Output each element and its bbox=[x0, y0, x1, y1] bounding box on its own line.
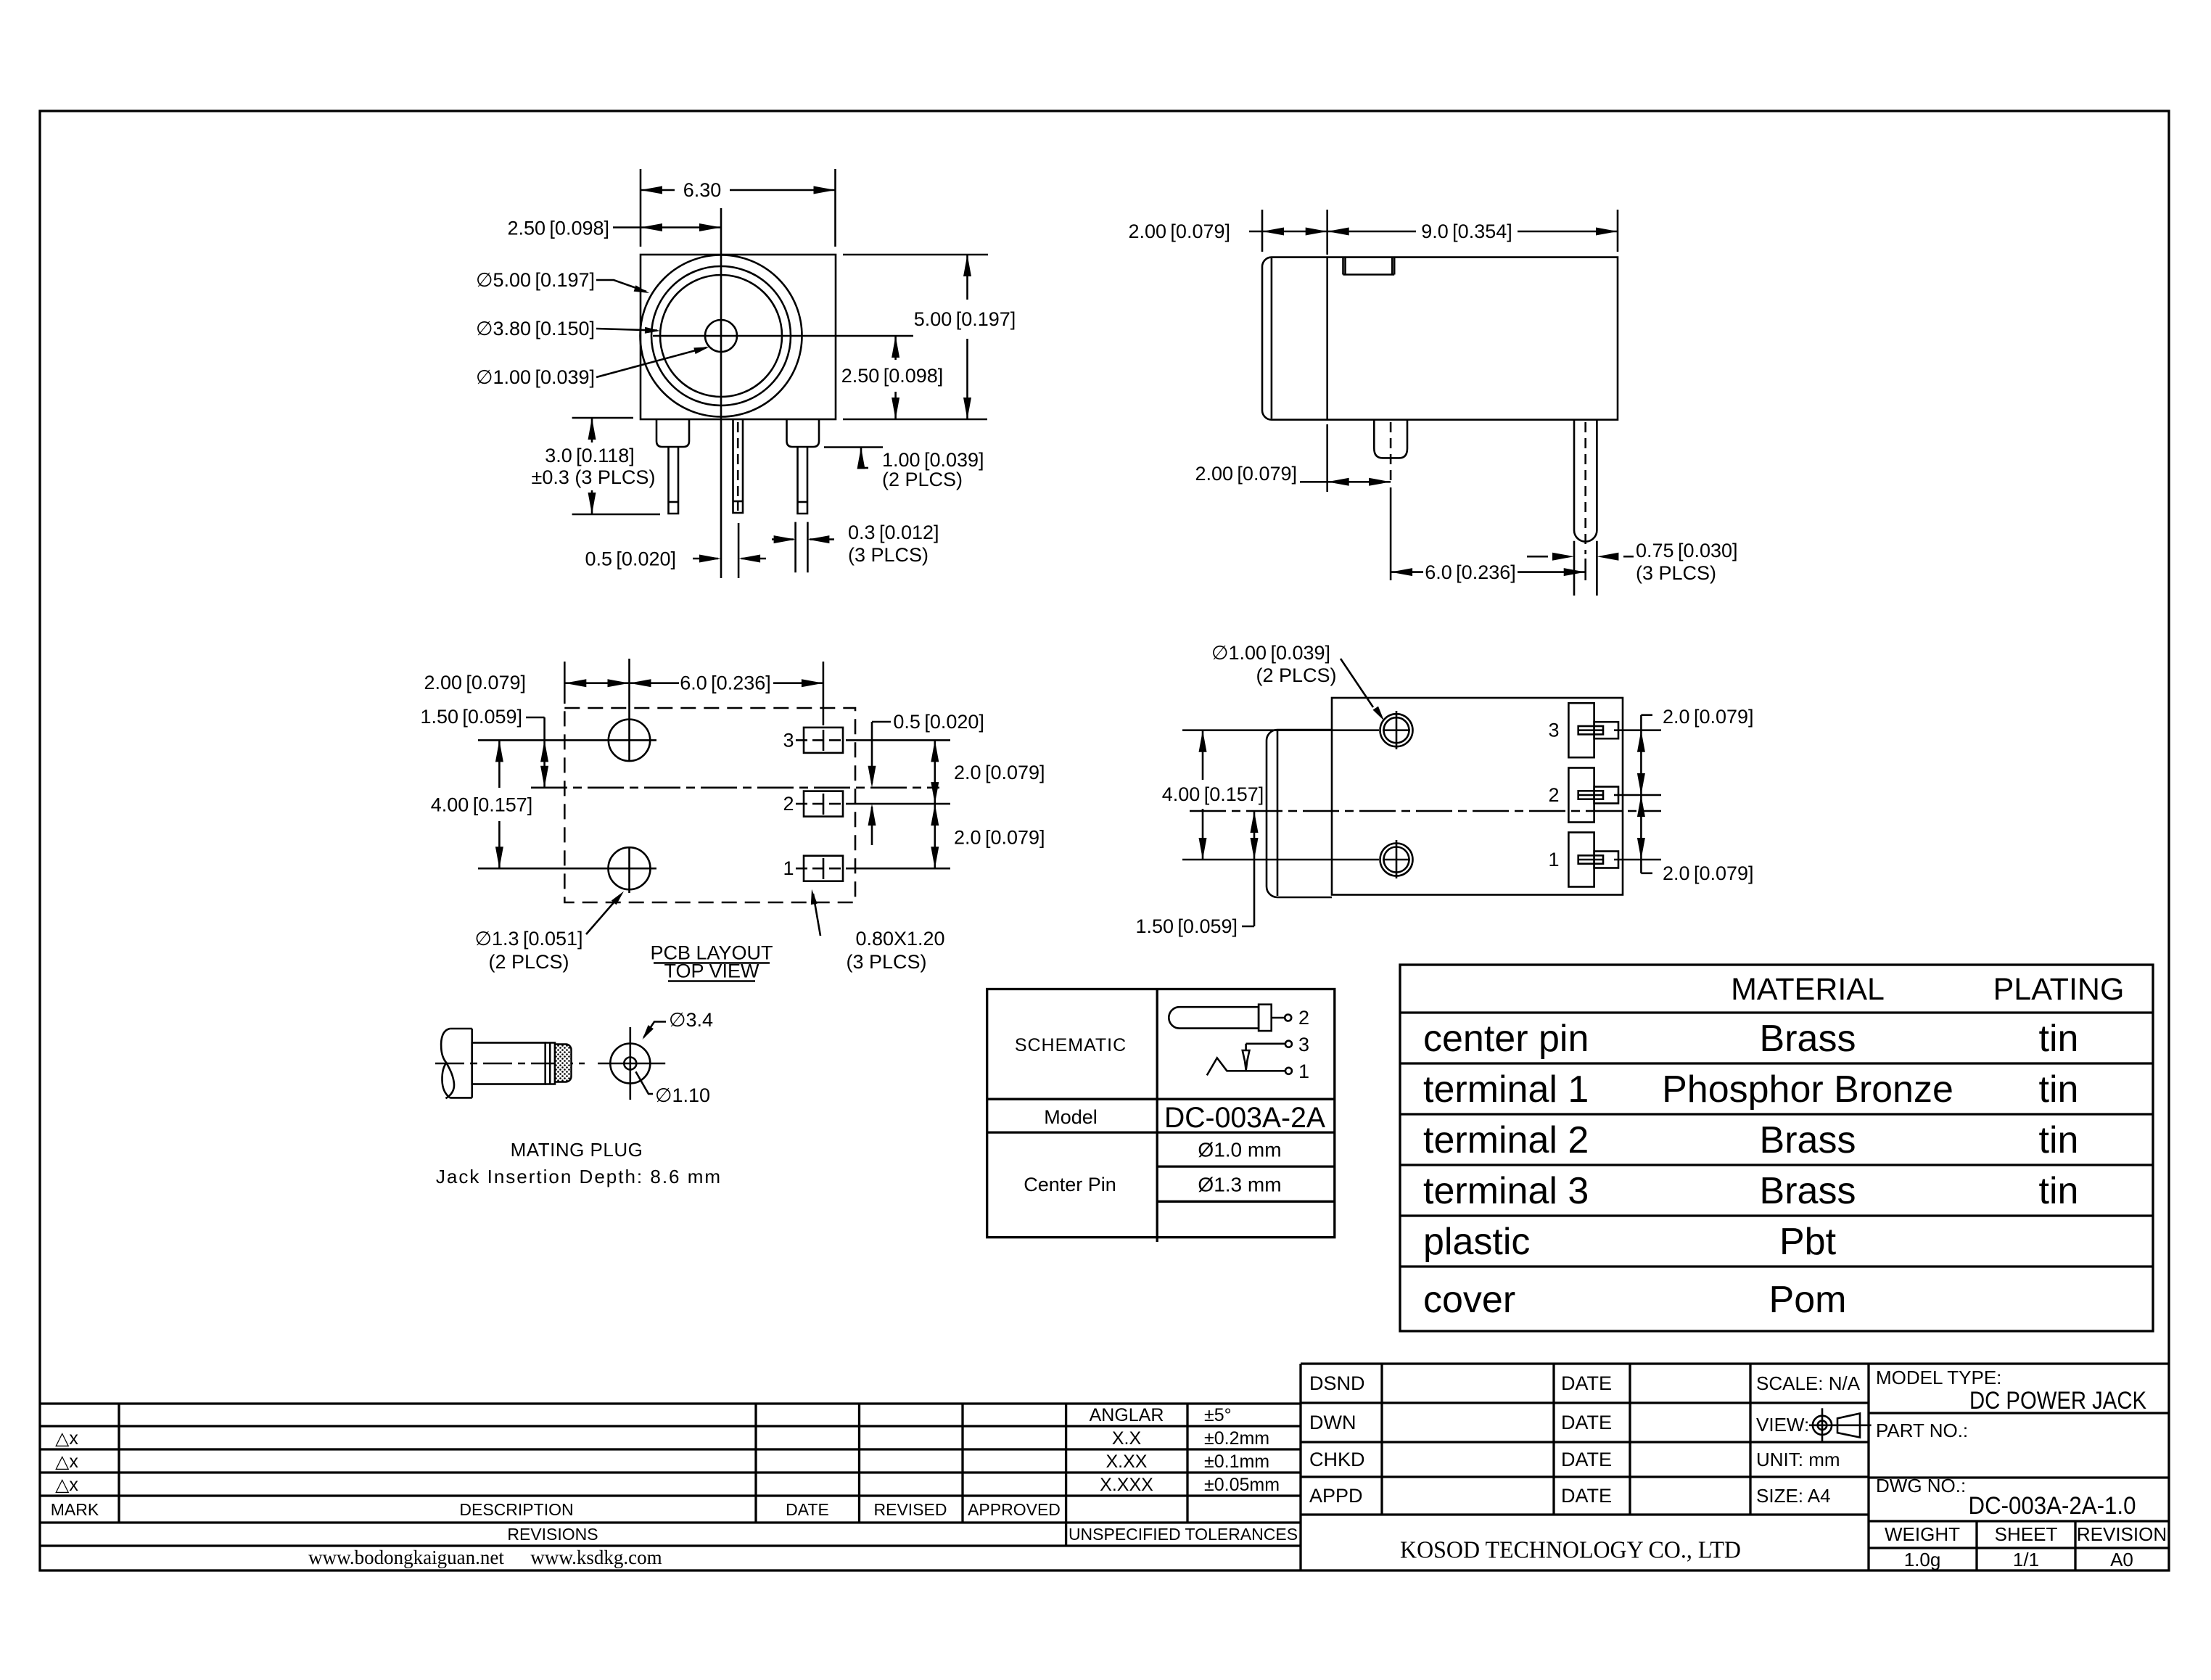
svg-text:REVISIONS: REVISIONS bbox=[507, 1525, 598, 1544]
svg-text:MATERIAL: MATERIAL bbox=[1731, 972, 1885, 1007]
svg-text:SIZE: A4: SIZE: A4 bbox=[1756, 1485, 1831, 1507]
svg-text:WEIGHT: WEIGHT bbox=[1885, 1523, 1960, 1545]
svg-text:X.XX: X.XX bbox=[1106, 1452, 1148, 1472]
svg-text:(3 PLCS): (3 PLCS) bbox=[846, 951, 926, 973]
terminal 1 shoulder (right) bbox=[787, 419, 820, 447]
top notch bbox=[1343, 258, 1395, 275]
svg-text:6.0 [0.236]: 6.0 [0.236] bbox=[680, 672, 771, 694]
terminal 2 tab bbox=[1568, 768, 1618, 823]
svg-text:∅3.4: ∅3.4 bbox=[669, 1009, 713, 1031]
front view jack body bbox=[641, 255, 836, 419]
svg-text:0.80X1.20: 0.80X1.20 bbox=[855, 928, 944, 950]
svg-text:±5°: ±5° bbox=[1204, 1405, 1232, 1425]
svg-text:3.0 [0.118]: 3.0 [0.118] bbox=[545, 445, 635, 466]
svg-text:DC POWER JACK: DC POWER JACK bbox=[1969, 1387, 2146, 1415]
dim 9.0 top bbox=[1617, 210, 1619, 252]
svg-text:Brass: Brass bbox=[1760, 1018, 1856, 1060]
dim 6.0 pin spacing bbox=[1390, 487, 1392, 580]
vertical centerline bbox=[720, 208, 722, 578]
svg-text:DWG NO.:: DWG NO.: bbox=[1876, 1475, 1966, 1496]
svg-text:TOP VIEW: TOP VIEW bbox=[664, 960, 759, 982]
svg-text:2.0 [0.079]: 2.0 [0.079] bbox=[954, 762, 1045, 783]
svg-text:3: 3 bbox=[783, 729, 794, 751]
plug centerline bbox=[435, 1063, 585, 1065]
dim 0.5 center bbox=[738, 523, 740, 578]
center pin lead (side) bbox=[1574, 420, 1597, 542]
dim 2.00 hole offset bbox=[564, 662, 566, 704]
MATTABLE bbox=[40, 1364, 2169, 1570]
svg-text:∅1.3 [0.051]: ∅1.3 [0.051] bbox=[474, 928, 582, 950]
svg-text:REVISION: REVISION bbox=[2077, 1523, 2167, 1545]
dim 2.50 top bbox=[613, 226, 721, 228]
svg-text:MODEL TYPE:: MODEL TYPE: bbox=[1876, 1367, 2001, 1388]
svg-text:Center Pin: Center Pin bbox=[1024, 1174, 1116, 1195]
svg-text:Phosphor Bronze: Phosphor Bronze bbox=[1662, 1068, 1953, 1111]
side view body with rounded cover flange bbox=[1262, 258, 1618, 420]
dim 0.75 pin dia bbox=[1573, 541, 1576, 596]
revisions table lines bbox=[40, 1404, 1301, 1546]
svg-text:Model: Model bbox=[1044, 1106, 1098, 1128]
svg-text:2.00 [0.079]: 2.00 [0.079] bbox=[1128, 221, 1230, 242]
pad 3 bbox=[804, 728, 843, 753]
dim 6.30 top bbox=[640, 169, 642, 247]
dim 2.00 top bbox=[1261, 210, 1264, 252]
terminal 3 pin lead bbox=[669, 447, 679, 514]
title block lines bbox=[1301, 1364, 2169, 1570]
svg-text:center pin: center pin bbox=[1423, 1018, 1589, 1060]
dim 4.00 hole spacing bbox=[498, 740, 501, 788]
schematic symbol: plug barrel bbox=[1169, 1007, 1259, 1028]
svg-text:Pom: Pom bbox=[1769, 1279, 1847, 1321]
pcb outline dashed bbox=[564, 708, 855, 902]
svg-text:DC-003A-2A-1.0: DC-003A-2A-1.0 bbox=[1969, 1492, 2136, 1520]
svg-text:PART NO.:: PART NO.: bbox=[1876, 1420, 1968, 1441]
svg-text:2.00 [0.079]: 2.00 [0.079] bbox=[1195, 463, 1297, 485]
terminal 2 pin (side) bbox=[1374, 420, 1407, 458]
hole row 1 extension line bbox=[478, 868, 656, 870]
center pin lead bbox=[733, 419, 744, 513]
svg-text:X.X: X.X bbox=[1112, 1428, 1142, 1449]
svg-text:2.00 [0.079]: 2.00 [0.079] bbox=[424, 672, 526, 693]
svg-text:±0.1mm: ±0.1mm bbox=[1204, 1452, 1269, 1472]
svg-text:2: 2 bbox=[1298, 1007, 1309, 1029]
hole row 3 extension line bbox=[1182, 729, 1379, 731]
horizontal centerline bbox=[653, 335, 913, 337]
svg-text:SCHEMATIC: SCHEMATIC bbox=[1015, 1035, 1127, 1055]
svg-text:REVISED: REVISED bbox=[874, 1500, 947, 1519]
schematic symbol: sleeve contact block bbox=[1259, 1005, 1272, 1031]
svg-text:(3 PLCS): (3 PLCS) bbox=[848, 544, 929, 566]
svg-text:tin: tin bbox=[2039, 1068, 2079, 1111]
svg-text:1.50 [0.059]: 1.50 [0.059] bbox=[1135, 915, 1238, 937]
jack centerline bbox=[1190, 810, 1661, 812]
svg-text:terminal 3: terminal 3 bbox=[1423, 1170, 1589, 1212]
BOTTOMVIEW bbox=[435, 1009, 722, 1187]
svg-text:(2 PLCS): (2 PLCS) bbox=[882, 469, 963, 490]
svg-text:plastic: plastic bbox=[1423, 1221, 1530, 1263]
dim 2.00 pin offset bbox=[1326, 424, 1328, 492]
terminal 3 tab bbox=[1568, 703, 1618, 757]
svg-text:tin: tin bbox=[2039, 1170, 2079, 1212]
first angle projection symbol bbox=[1813, 1416, 1832, 1435]
svg-text:1: 1 bbox=[1298, 1061, 1309, 1082]
svg-text:MARK: MARK bbox=[51, 1500, 99, 1519]
svg-text:±0.2mm: ±0.2mm bbox=[1204, 1428, 1269, 1449]
jack centerline bbox=[531, 787, 939, 789]
pad 1 bbox=[804, 856, 843, 881]
svg-text:1.00 [0.039]: 1.00 [0.039] bbox=[882, 449, 984, 471]
svg-text:DATE: DATE bbox=[1561, 1485, 1612, 1507]
svg-text:0.5 [0.020]: 0.5 [0.020] bbox=[585, 548, 676, 570]
svg-text:APPROVED: APPROVED bbox=[968, 1500, 1061, 1519]
dim 2.50 right bbox=[894, 336, 897, 360]
terminal row extension lines bbox=[1614, 729, 1661, 731]
svg-text:±0.3 (3 PLCS): ±0.3 (3 PLCS) bbox=[532, 466, 656, 488]
cover flange (bottom view) bbox=[1267, 730, 1332, 897]
knurled tip bbox=[555, 1045, 572, 1082]
svg-text:△x: △x bbox=[55, 1475, 78, 1495]
FRONTVIEW bbox=[1128, 210, 1737, 596]
barrel circle Ø3.80 bbox=[660, 275, 782, 397]
svg-text:6.0 [0.236]: 6.0 [0.236] bbox=[1425, 561, 1516, 583]
svg-text:(2 PLCS): (2 PLCS) bbox=[488, 951, 569, 973]
dim 1.50 centerline to hole bbox=[1253, 811, 1256, 926]
svg-text:VIEW:: VIEW: bbox=[1756, 1414, 1809, 1436]
hole Ø1.3 upper bbox=[609, 720, 650, 761]
dim 0.3 right pin bbox=[794, 522, 796, 573]
svg-text:ANGLAR: ANGLAR bbox=[1090, 1405, 1164, 1425]
dim 3.0 ±0.3 left bbox=[572, 417, 633, 419]
svg-text:tin: tin bbox=[2039, 1119, 2079, 1161]
svg-text:www.bodongkaiguan.net: www.bodongkaiguan.net bbox=[308, 1547, 504, 1568]
svg-text:2: 2 bbox=[783, 793, 794, 815]
svg-text:terminal 1: terminal 1 bbox=[1423, 1068, 1589, 1111]
svg-text:PLATING: PLATING bbox=[1993, 972, 2125, 1007]
svg-text:△x: △x bbox=[55, 1452, 78, 1472]
pad row extension lines right bbox=[852, 739, 950, 741]
svg-text:4.00 [0.157]: 4.00 [0.157] bbox=[1162, 783, 1264, 805]
svg-text:0.5 [0.020]: 0.5 [0.020] bbox=[893, 711, 984, 733]
svg-text:DATE: DATE bbox=[1561, 1372, 1612, 1394]
svg-text:2: 2 bbox=[1548, 784, 1559, 806]
svg-text:0.75 [0.030]: 0.75 [0.030] bbox=[1636, 540, 1738, 561]
svg-text:Jack Insertion Depth: 8.6 mm: Jack Insertion Depth: 8.6 mm bbox=[436, 1166, 722, 1187]
svg-text:DATE: DATE bbox=[786, 1500, 829, 1519]
svg-text:∅1.00 [0.039]: ∅1.00 [0.039] bbox=[1211, 642, 1330, 664]
svg-text:(3 PLCS): (3 PLCS) bbox=[1636, 562, 1716, 584]
bushing outer circle Ø5.00 bbox=[641, 255, 802, 417]
cover flange inner line bbox=[1271, 258, 1273, 419]
svg-text:cover: cover bbox=[1423, 1279, 1515, 1321]
svg-text:6.30: 6.30 bbox=[683, 179, 722, 201]
svg-text:∅5.00 [0.197]: ∅5.00 [0.197] bbox=[476, 269, 595, 291]
svg-text:3: 3 bbox=[1548, 720, 1559, 741]
svg-text:1/1: 1/1 bbox=[2013, 1549, 2039, 1570]
svg-text:Brass: Brass bbox=[1760, 1119, 1856, 1161]
pad 2 bbox=[804, 791, 843, 817]
svg-text:APPD: APPD bbox=[1309, 1485, 1363, 1507]
svg-text:X.XXX: X.XXX bbox=[1100, 1475, 1153, 1495]
dim 2.0 pad3-pad2 bbox=[934, 740, 936, 868]
svg-text:SCALE: N/A: SCALE: N/A bbox=[1756, 1372, 1861, 1394]
dim 1.00 right bbox=[824, 446, 883, 448]
svg-text:4.00 [0.157]: 4.00 [0.157] bbox=[431, 794, 533, 816]
PLUG bbox=[987, 989, 1335, 1243]
schematic table frame bbox=[987, 989, 1335, 1238]
svg-text:5.00 [0.197]: 5.00 [0.197] bbox=[914, 308, 1016, 330]
dim 2.0 terminal spacing lower bbox=[1641, 873, 1652, 875]
dim 1.50 hole to centerline bbox=[526, 717, 545, 719]
svg-text:∅1.00 [0.039]: ∅1.00 [0.039] bbox=[476, 366, 595, 388]
svg-text:1: 1 bbox=[1548, 849, 1559, 870]
svg-text:△x: △x bbox=[55, 1428, 78, 1449]
svg-text:DESCRIPTION: DESCRIPTION bbox=[459, 1500, 573, 1519]
svg-text:∅3.80 [0.150]: ∅3.80 [0.150] bbox=[476, 318, 595, 339]
svg-text:MATING PLUG: MATING PLUG bbox=[511, 1139, 643, 1161]
dim 4.00 hole spacing bbox=[1202, 730, 1204, 780]
center pin circle Ø1.00 bbox=[705, 320, 737, 352]
svg-text:1.0g: 1.0g bbox=[1904, 1549, 1941, 1570]
svg-text:DATE: DATE bbox=[1561, 1412, 1612, 1433]
hole Ø1.3 lower bbox=[609, 847, 651, 889]
svg-text:DSND: DSND bbox=[1309, 1372, 1365, 1394]
svg-text:1: 1 bbox=[783, 857, 794, 879]
PCBVIEW bbox=[1135, 642, 1753, 937]
svg-text:(2 PLCS): (2 PLCS) bbox=[1256, 664, 1336, 686]
dim 2.0 pad2-pad1 bbox=[931, 804, 939, 825]
SCHTABLE bbox=[1400, 965, 2153, 1331]
svg-text:DWN: DWN bbox=[1309, 1412, 1356, 1433]
svg-text:tin: tin bbox=[2039, 1018, 2079, 1060]
terminal 3 shoulder (left) bbox=[656, 419, 689, 447]
mounting pin 3 (double circle) bbox=[1380, 714, 1413, 746]
hole row 3 extension line bbox=[478, 739, 656, 741]
svg-text:A0: A0 bbox=[2110, 1549, 2133, 1570]
schematic pin 2 bbox=[1272, 1017, 1285, 1019]
svg-text:2.50 [0.098]: 2.50 [0.098] bbox=[507, 218, 609, 239]
plug barrel bbox=[472, 1043, 545, 1084]
terminal 1 tab bbox=[1568, 833, 1618, 887]
svg-text:±0.05mm: ±0.05mm bbox=[1204, 1475, 1280, 1495]
svg-text:3: 3 bbox=[1298, 1034, 1309, 1055]
dim 0.5 pad2 offset bbox=[872, 721, 891, 723]
schematic pin 3 with center-pin contact bbox=[1285, 1041, 1292, 1047]
svg-text:2.50 [0.098]: 2.50 [0.098] bbox=[841, 365, 944, 387]
bottom view body bbox=[1332, 698, 1623, 895]
svg-text:0.3 [0.012]: 0.3 [0.012] bbox=[848, 522, 939, 543]
svg-text:UNSPECIFIED TOLERANCES: UNSPECIFIED TOLERANCES bbox=[1069, 1525, 1298, 1544]
svg-text:KOSOD TECHNOLOGY CO., LTD: KOSOD TECHNOLOGY CO., LTD bbox=[1400, 1537, 1741, 1564]
dim 6.0 hole to pad bbox=[823, 662, 825, 725]
svg-text:DC-003A-2A: DC-003A-2A bbox=[1164, 1102, 1325, 1134]
svg-text:9.0 [0.354]: 9.0 [0.354] bbox=[1421, 221, 1512, 242]
svg-text:SHEET: SHEET bbox=[1995, 1523, 2058, 1545]
svg-text:2.0 [0.079]: 2.0 [0.079] bbox=[1663, 706, 1754, 728]
plug handle with cable break bbox=[441, 1029, 450, 1098]
dim 5.00 right bbox=[843, 254, 988, 256]
dim 2.0 terminal spacing upper bbox=[1641, 714, 1652, 716]
cover/body separation line bbox=[1326, 258, 1328, 420]
schematic pin 1 with switch lever bbox=[1207, 1058, 1285, 1075]
svg-text:Pbt: Pbt bbox=[1779, 1221, 1837, 1263]
hole row 1 extension line bbox=[1182, 859, 1379, 861]
svg-text:DATE: DATE bbox=[1561, 1449, 1612, 1470]
svg-text:www.ksdkg.com: www.ksdkg.com bbox=[530, 1547, 662, 1568]
SIDEVIEW bbox=[420, 659, 1045, 982]
terminal 1 pin lead bbox=[798, 447, 808, 514]
svg-text:∅1.10: ∅1.10 bbox=[655, 1084, 710, 1106]
svg-text:Brass: Brass bbox=[1760, 1170, 1856, 1212]
svg-text:CHKD: CHKD bbox=[1309, 1449, 1365, 1470]
svg-text:UNIT: mm: UNIT: mm bbox=[1756, 1449, 1840, 1470]
svg-text:1.50 [0.059]: 1.50 [0.059] bbox=[420, 706, 522, 728]
svg-text:2.0 [0.079]: 2.0 [0.079] bbox=[954, 826, 1045, 848]
mounting pin 1 (double circle) bbox=[1380, 844, 1413, 876]
svg-text:terminal 2: terminal 2 bbox=[1423, 1119, 1589, 1161]
plug front view bbox=[610, 1044, 650, 1084]
svg-text:Ø1.0 mm: Ø1.0 mm bbox=[1198, 1139, 1281, 1161]
svg-text:2.0 [0.079]: 2.0 [0.079] bbox=[1663, 862, 1754, 884]
material table frame bbox=[1400, 965, 2153, 1331]
svg-text:Ø1.3 mm: Ø1.3 mm bbox=[1198, 1174, 1281, 1196]
bushing rim circle bbox=[651, 266, 791, 405]
